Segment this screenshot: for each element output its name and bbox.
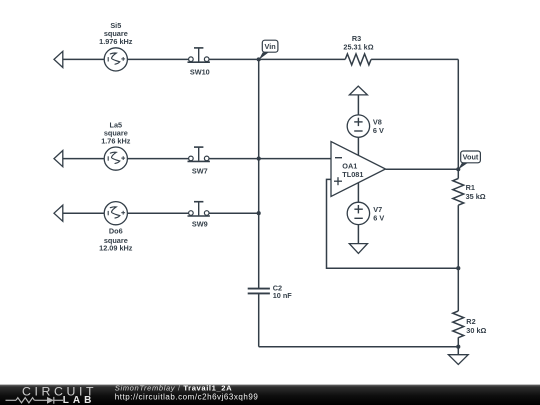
wire row3 mid [127,212,188,214]
wire R1 to junction [457,205,459,268]
port arrow row2 [54,151,63,167]
wire ground stem [457,347,459,355]
resistor R1 35k [453,179,486,206]
wire plus input feedback [327,179,459,268]
ground [448,355,468,365]
source V7 6V [347,202,384,224]
junction row2 bus [257,157,261,161]
wire vin bus vertical [258,59,260,288]
wire op-amp to V7 [357,183,359,203]
svg-text:SW9: SW9 [192,220,208,229]
wire Vin to R3 [259,58,346,60]
svg-text:TL081: TL081 [342,170,363,179]
footer bar [0,385,540,405]
wire Vout to R1 [457,169,459,178]
node Vin [257,40,278,61]
svg-text:25.31 kΩ: 25.31 kΩ [343,43,373,52]
wire C2 bottom [258,293,260,346]
wire row3 left [63,212,104,214]
svg-text:35 kΩ: 35 kΩ [466,192,486,201]
wire V8 to op-amp [357,137,359,155]
switch SW9 [188,202,210,229]
footer credits [115,383,259,401]
svg-text:SW10: SW10 [190,68,210,77]
source Do6 square 12.09 kHz [99,202,133,253]
switch SW10 [188,48,210,77]
wire bus to op-amp minus input (row2 extension) [209,158,331,160]
svg-text:10 nF: 10 nF [273,291,293,300]
wire V7 to vee [357,225,359,244]
port arrow row1 [54,51,63,67]
junction row3 bus [257,211,261,215]
svg-text:R1: R1 [466,183,475,192]
wire R3 to right bus [371,58,458,60]
capacitor C2 10nF [248,283,293,300]
svg-text:Vin: Vin [264,42,275,51]
svg-text:12.09 kHz: 12.09 kHz [99,243,133,252]
source V8 6V [347,115,384,137]
svg-text:Do6: Do6 [109,227,123,236]
wire row2 mid [127,158,188,160]
svg-text:Vout: Vout [463,153,479,162]
svg-text:SimonTremblay / Travail1_2A: SimonTremblay / Travail1_2A [115,383,232,392]
svg-text:http://circuitlab.com/c2h6vj63: http://circuitlab.com/c2h6vj63xqh99 [115,393,259,402]
svg-text:SW7: SW7 [192,167,208,176]
wire R2 to bottom junction [457,337,459,346]
port arrow row3 [54,205,63,221]
junction feedback [456,266,460,270]
resistor R3 25.31k [343,34,373,65]
op-amp OA1 TL081 [331,142,386,197]
wire row1 right to Vin node [209,58,259,60]
wire row1 mid [127,58,188,60]
wire op-amp output [386,168,459,170]
switch SW7 [188,147,210,176]
resistor R2 30k [453,311,487,338]
svg-text:1.76 kHz: 1.76 kHz [101,137,131,146]
svg-text:30 kΩ: 30 kΩ [466,326,486,335]
svg-text:R2: R2 [466,317,475,326]
source Si5 square 1.976 kHz [99,21,133,71]
svg-text:1.976 kHz: 1.976 kHz [99,37,133,46]
node Vout [456,151,480,171]
wire right bus top [457,59,459,169]
wire row2 left [63,158,104,160]
wire row3 right [209,212,259,214]
source La5 square 1.76 kHz [101,120,131,170]
vee arrow [349,244,367,254]
junction bottom [456,345,460,349]
svg-text:LAB: LAB [63,395,96,405]
svg-text:6 V: 6 V [373,126,384,135]
vcc arrow [349,86,367,95]
wire row1 left [63,58,104,60]
wire vcc to V8 [357,95,359,115]
wire bottom horizontal [259,346,459,348]
svg-text:6 V: 6 V [373,214,384,223]
wire junction to R2 [457,268,459,311]
footer circuitlab logo [6,385,98,405]
